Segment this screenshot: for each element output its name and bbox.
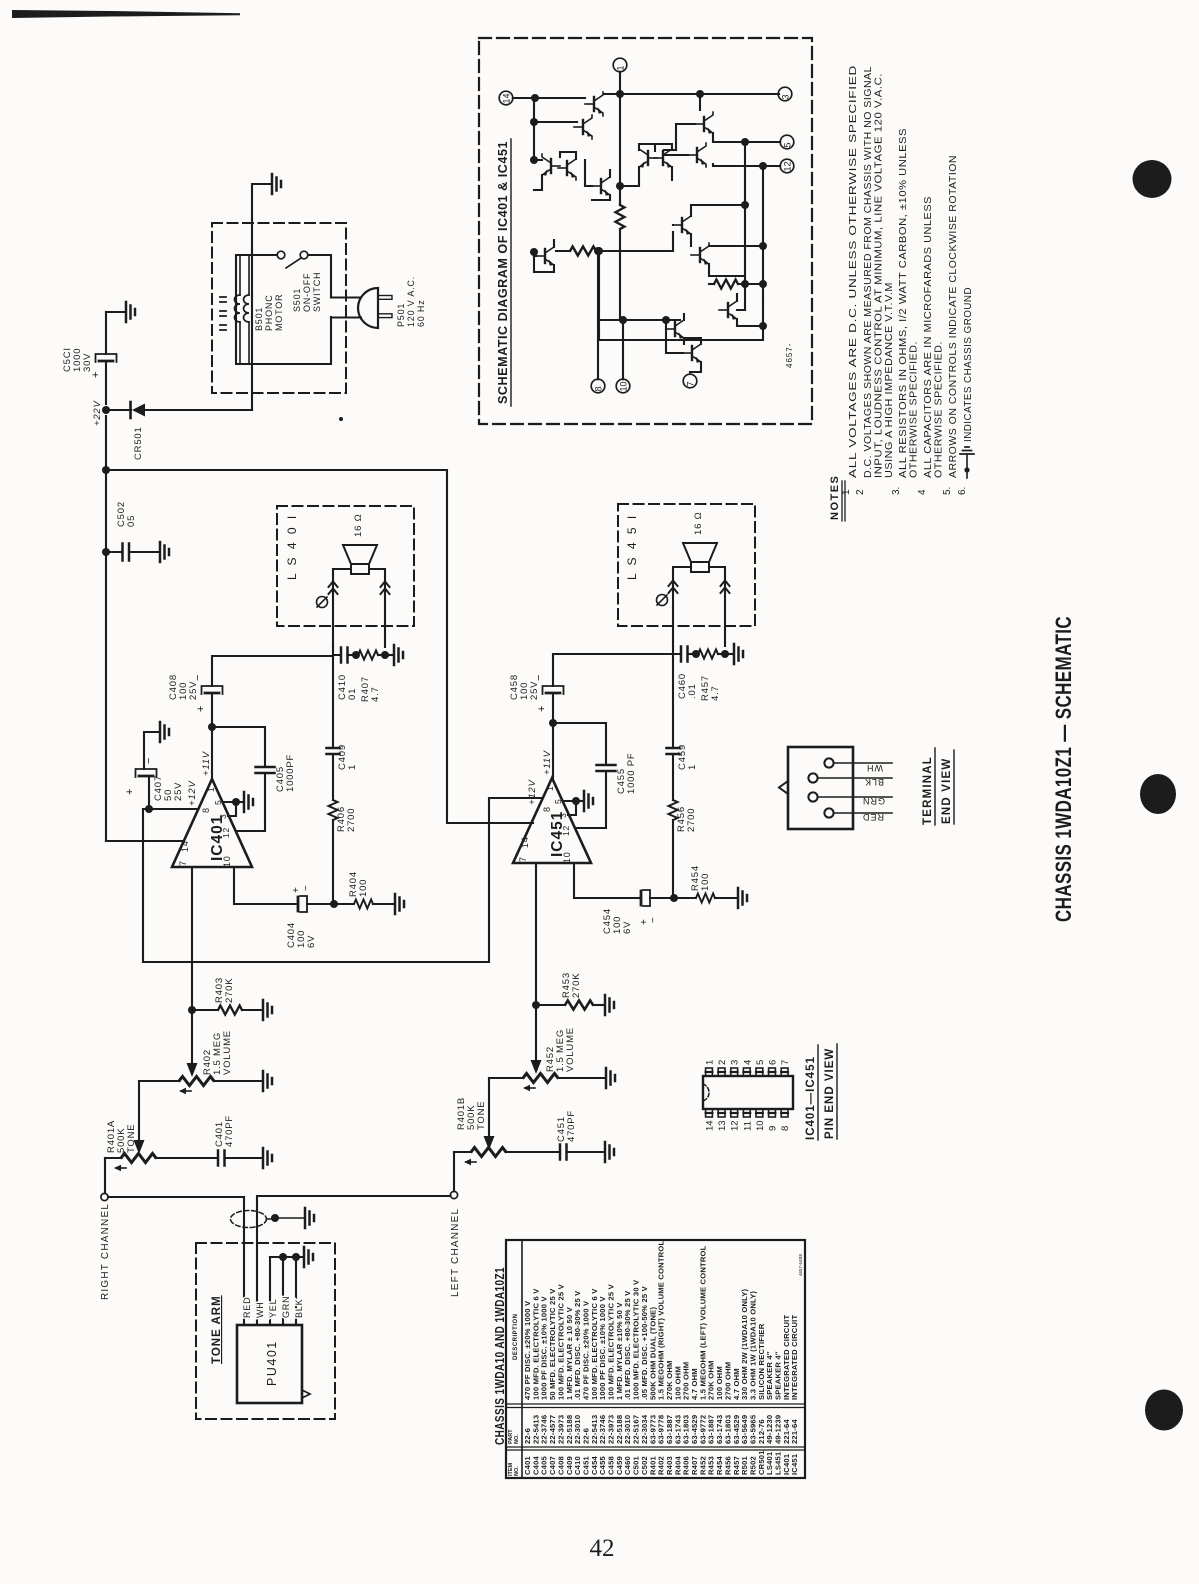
wire C501 top: [105, 312, 107, 354]
svg-text:PIN END VIEW: PIN END VIEW: [824, 1048, 836, 1139]
svg-text:2700: 2700: [686, 808, 697, 832]
wire R456 to node: [672, 820, 674, 898]
svg-text:INPUT, LOUDNESS CONTROL AT MIN: INPUT, LOUDNESS CONTROL AT MINIMUM, LINE…: [874, 73, 885, 478]
svg-text:WH: WH: [255, 1301, 265, 1318]
svg-text:USING A HIGH IMPEDANCE V.T.V.M: USING A HIGH IMPEDANCE V.T.V.M: [884, 282, 895, 478]
svg-text:CR501: CR501: [133, 426, 144, 460]
svg-text:−: −: [143, 758, 155, 764]
svg-text:2700: 2700: [346, 808, 357, 832]
motor loop box: [236, 255, 331, 364]
wire R401A to terminal: [104, 1158, 106, 1193]
svg-text:9: 9: [768, 1126, 779, 1131]
node GRN tie: [279, 1253, 287, 1261]
registration oval right bottom: [1145, 1390, 1183, 1431]
svg-text:6.: 6.: [957, 487, 968, 495]
terminal BLK: [808, 773, 817, 782]
svg-text:YEL: YEL: [268, 1299, 278, 1318]
IC pin 3: [778, 87, 792, 101]
svg-text:120 V A.C.: 120 V A.C.: [406, 276, 416, 327]
svg-text:RED: RED: [862, 812, 884, 822]
svg-text:1: 1: [347, 764, 358, 770]
svg-text:5: 5: [755, 1060, 766, 1065]
svg-text:VOLUME: VOLUME: [222, 1030, 233, 1075]
transistor Q8: [592, 174, 610, 198]
wire right verticals: [745, 142, 763, 310]
svg-text:RIGHT CHANNEL: RIGHT CHANNEL: [100, 1203, 111, 1300]
shield cable: [231, 1211, 267, 1228]
pot arrow R452: [531, 1060, 542, 1074]
resistor R456: [669, 800, 678, 820]
svg-text:+: +: [124, 789, 136, 795]
svg-text:SWITCH: SWITCH: [312, 272, 322, 312]
svg-text:1: 1: [687, 764, 698, 770]
svg-text:ALL VOLTAGES ARE D.C. UNLESS O: ALL VOLTAGES ARE D.C. UNLESS OTHERWISE S…: [848, 65, 859, 478]
svg-text:6V: 6V: [622, 921, 633, 934]
ground at C502: [160, 542, 169, 562]
svg-text:END VIEW: END VIEW: [941, 758, 953, 824]
svg-text:+11V: +11V: [542, 749, 553, 775]
svg-text:S501: S501: [292, 288, 302, 312]
svg-text:WH: WH: [866, 763, 883, 773]
ground at R453: [605, 995, 614, 1015]
parts table frame: [506, 1240, 805, 1478]
wire YEL: [269, 1257, 271, 1325]
transistor Q1: [585, 92, 603, 116]
svg-text:8: 8: [594, 386, 604, 391]
svg-text:14: 14: [705, 1120, 716, 1131]
wire IC401 pin10: [234, 867, 296, 904]
node top rail right: [696, 90, 704, 98]
transistor Q11: [691, 243, 709, 267]
capacitor C455: [553, 723, 606, 764]
phase chevrons LS451 left: [669, 581, 678, 594]
phase chevrons LS401 left: [329, 582, 338, 595]
speaker LS451 wires: [673, 567, 725, 646]
transistor Q4: [688, 143, 706, 167]
svg-text:RED: RED: [242, 1297, 252, 1318]
capacitor C404: [300, 896, 307, 912]
svg-text:4: 4: [917, 489, 928, 495]
svg-text:OTHERWISE SPECIFIED.: OTHERWISE SPECIFIED.: [934, 341, 945, 478]
svg-text:4: 4: [742, 1060, 753, 1065]
wire +12V rail: [143, 808, 198, 810]
cartridge PU401: [237, 1325, 302, 1403]
IC package pins top: [706, 1068, 713, 1076]
terminal GRN: [808, 792, 817, 801]
svg-text:1: 1: [841, 489, 852, 495]
svg-text:13: 13: [717, 1120, 728, 1131]
wire at diode: [106, 409, 252, 411]
svg-text:+11V: +11V: [201, 750, 212, 776]
svg-text:TONE: TONE: [476, 1101, 487, 1130]
wire left channel run: [257, 1195, 451, 1197]
svg-text:270K: 270K: [224, 978, 235, 1003]
shield ground wire: [267, 1218, 273, 1220]
svg-text:+: +: [195, 706, 207, 712]
resistor R453: [536, 1004, 564, 1006]
svg-text:ARROWS ON CONTROLS INDICATE CL: ARROWS ON CONTROLS INDICATE CLOCKWISE RO…: [948, 155, 959, 478]
node bus-552: [102, 548, 110, 556]
wire pin10 vertical: [598, 320, 623, 379]
capacitor C501: [96, 354, 117, 362]
ground at R402: [263, 1071, 272, 1091]
node C454-R454: [670, 894, 678, 902]
IC internal dashed box: [479, 38, 812, 424]
resistor internal R1: [619, 200, 621, 205]
wire Q9 links: [534, 252, 536, 256]
svg-text:LEFT CHANNEL: LEFT CHANNEL: [450, 1208, 461, 1297]
svg-text:30V: 30V: [82, 353, 93, 372]
svg-text:270K: 270K: [571, 973, 582, 998]
svg-text:2: 2: [855, 489, 866, 495]
IC package pins bottom: [706, 1109, 713, 1117]
terminal board: [788, 747, 853, 829]
svg-text:.01: .01: [687, 683, 698, 699]
svg-text:INTEGRATED CIRCUIT: INTEGRATED CIRCUIT: [790, 1315, 799, 1400]
svg-text:8: 8: [542, 806, 552, 812]
svg-text:01: 01: [347, 688, 358, 700]
resistor internal R2: [556, 250, 570, 252]
ground IC401 pin5: [244, 792, 253, 812]
svg-text:16 Ω: 16 Ω: [693, 511, 704, 535]
transistor Q12: [719, 298, 737, 322]
ground at R454: [738, 888, 747, 908]
svg-text:MOTOR: MOTOR: [274, 294, 284, 331]
node R407-gnd: [381, 651, 389, 659]
wire +11V node to apex: [211, 727, 213, 779]
svg-text:12: 12: [730, 1120, 741, 1131]
svg-text:10: 10: [619, 381, 629, 391]
wire Q3 links: [676, 94, 780, 150]
wire bottom rail: [623, 319, 680, 321]
terminal RED: [824, 808, 833, 817]
wiper R401B: [466, 1161, 476, 1163]
svg-text:12: 12: [783, 161, 793, 171]
svg-text:P501: P501: [396, 303, 406, 327]
motor core dashes: [220, 297, 226, 330]
wire IC401 pin5-3 ground tie: [224, 802, 236, 816]
svg-text:10: 10: [755, 1120, 766, 1131]
capacitor C409: [327, 748, 340, 754]
svg-text:60 Hz: 60 Hz: [416, 299, 426, 327]
capacitor C460: [673, 646, 680, 654]
wire pin1 vertical: [619, 72, 621, 205]
node bus-470: [102, 466, 110, 474]
wire Q13 links: [666, 314, 684, 344]
potentiometer R401A: [105, 1157, 121, 1159]
svg-text:5: 5: [553, 798, 563, 804]
svg-text:3: 3: [781, 94, 791, 99]
wire Q12 links: [737, 294, 763, 326]
wire Q2 link: [534, 98, 577, 160]
capacitor C401: [218, 1151, 225, 1166]
TONE ARM dashed box: [196, 1243, 335, 1419]
svg-text:3: 3: [558, 812, 568, 818]
svg-text:BLK: BLK: [294, 1299, 304, 1318]
phase chevrons LS401 right: [381, 582, 390, 595]
LS401 dashed box: [277, 506, 414, 626]
IC pin 1: [613, 58, 627, 72]
node C460-R457: [692, 650, 700, 658]
IC pin 7: [683, 374, 697, 388]
svg-text:4.7: 4.7: [710, 685, 721, 701]
wire WH: [256, 1197, 258, 1325]
svg-text:SCHEMATIC DIAGRAM OF IC401 & I: SCHEMATIC DIAGRAM OF IC401 & IC451: [496, 141, 510, 404]
wire BLK: [295, 1257, 297, 1325]
wire RED: [243, 1197, 245, 1325]
svg-text:7: 7: [178, 860, 188, 866]
svg-text:4.7: 4.7: [370, 686, 381, 702]
svg-text:−: −: [301, 885, 312, 891]
svg-text:1000 PF: 1000 PF: [626, 752, 637, 794]
node +11V IC451: [549, 719, 557, 727]
svg-text:6: 6: [768, 1060, 779, 1065]
svg-text:+: +: [536, 706, 548, 712]
svg-text:7: 7: [780, 1060, 791, 1065]
svg-text:BLK: BLK: [864, 777, 884, 787]
transistor Q5: [542, 154, 560, 178]
wire output node chain right: [672, 654, 674, 746]
wire motor riser: [252, 184, 271, 410]
resistor R454: [674, 897, 695, 899]
potentiometer R452: [489, 1077, 523, 1079]
wire R401B to terminal: [453, 1152, 455, 1191]
capacitor C405: [212, 727, 265, 766]
wiper R452: [525, 1087, 535, 1089]
terminal WH: [824, 758, 833, 767]
svg-text:5: 5: [783, 142, 793, 147]
transistor Q6: [558, 156, 576, 180]
svg-text:NO.: NO.: [514, 1466, 520, 1476]
wire IC401 pin14: [106, 840, 184, 842]
svg-text:2: 2: [717, 1060, 728, 1065]
speck: [339, 417, 343, 421]
svg-text:5.: 5.: [942, 487, 953, 495]
wire pin14 rail: [513, 97, 585, 99]
svg-text:8: 8: [780, 1126, 791, 1131]
wire Q14 links: [666, 329, 701, 372]
ground at C401: [263, 1148, 272, 1168]
transistor Q3: [695, 112, 713, 136]
wire +12V riser to right: [143, 798, 543, 962]
ground at C501: [126, 302, 135, 322]
svg-text:25V: 25V: [188, 681, 199, 700]
svg-text:7: 7: [686, 381, 696, 386]
svg-text:10: 10: [562, 851, 572, 863]
ground at C407: [160, 722, 169, 742]
ground at motor top: [272, 174, 281, 194]
svg-text:4657-: 4657-: [785, 343, 794, 368]
transistor Q9 left bottom: [536, 244, 554, 268]
svg-text:25V: 25V: [529, 681, 540, 700]
wire output node chain: [332, 655, 334, 746]
IC pin 14: [499, 91, 513, 105]
capacitor C451: [560, 1145, 567, 1160]
transistor Q13: [666, 317, 684, 341]
node right v1: [741, 201, 749, 209]
svg-text:1: 1: [705, 1060, 716, 1065]
wire Q12 emitter to rail: [599, 298, 763, 340]
wire IC451 pin7: [535, 863, 537, 1061]
note 6 ground glyph: [966, 455, 968, 478]
wire pin8 vertical: [597, 251, 599, 379]
wire R406 to node: [332, 820, 334, 904]
resistor R403: [192, 1009, 217, 1011]
ground IC451 pin5: [584, 791, 593, 811]
svg-text:5: 5: [213, 799, 223, 805]
node pin14 rail: [531, 94, 539, 102]
svg-text:DESCRIPTION: DESCRIPTION: [513, 1313, 519, 1360]
wire pin5 row: [664, 155, 780, 166]
wiper R402: [181, 1090, 191, 1092]
svg-text:25V: 25V: [173, 782, 184, 801]
svg-text:NOTES: NOTES: [829, 475, 841, 520]
svg-text:+12V: +12V: [187, 779, 198, 806]
ground at R404: [395, 894, 404, 914]
bus wire to right channel: [106, 470, 533, 823]
svg-text:ALL RESISTORS IN OHMS, I/2 WAT: ALL RESISTORS IN OHMS, I/2 WATT CARBON, …: [898, 128, 909, 478]
node pin1 top rail: [616, 90, 624, 98]
svg-text:11: 11: [742, 1121, 753, 1131]
wire Q8 links: [585, 160, 610, 200]
svg-text:1: 1: [545, 785, 555, 791]
wire top rail: [604, 93, 779, 95]
svg-text:TERMINAL: TERMINAL: [922, 756, 934, 825]
plug P501 wires: [331, 298, 361, 318]
node R457-gnd: [721, 650, 729, 658]
node pin5 row: [741, 138, 749, 146]
svg-text:4657-64B8: 4657-64B8: [798, 1253, 803, 1276]
svg-text:−: −: [192, 675, 204, 681]
svg-text:GRN: GRN: [281, 1296, 291, 1318]
wire Q5 Q6 links: [534, 152, 576, 190]
svg-text:470PF: 470PF: [566, 1110, 577, 1142]
B501 dashed box: [212, 223, 346, 393]
svg-text:14: 14: [180, 840, 190, 852]
svg-text:INDICATES CHASSIS GROUND: INDICATES CHASSIS GROUND: [963, 287, 974, 442]
potentiometer R401B: [454, 1151, 471, 1153]
svg-text:6V: 6V: [306, 935, 317, 948]
node R453: [532, 1001, 540, 1009]
left bus wire: [106, 416, 184, 841]
wire IC451 pin10: [574, 863, 639, 898]
pot arrow R401B: [484, 1136, 495, 1150]
capacitor C454: [643, 890, 650, 906]
transistor Q14: [683, 341, 701, 365]
wire +11V node to apex IC451: [552, 723, 554, 778]
svg-text:+12V: +12V: [527, 778, 538, 805]
wire IC401 pin7: [191, 867, 193, 1063]
svg-text:+: +: [90, 372, 102, 378]
resistor R406: [329, 800, 338, 820]
svg-text:D.C. VOLTAGES SHOWN ARE MEASUR: D.C. VOLTAGES SHOWN ARE MEASURED FROM CH…: [863, 66, 874, 478]
wire R402 to R401A: [138, 1081, 140, 1140]
terminal left channel: [450, 1191, 457, 1198]
node +11V IC401: [208, 723, 216, 731]
top-left registration bar: [12, 10, 240, 18]
node R403: [188, 1006, 196, 1014]
svg-text:12: 12: [221, 827, 231, 838]
phase mark LS401: [317, 597, 328, 608]
svg-text:IC451: IC451: [790, 1453, 799, 1475]
svg-text:VOLUME: VOLUME: [565, 1027, 576, 1072]
capacitor C407: [148, 778, 150, 809]
op-amp IC401 triangle: [172, 779, 252, 867]
capacitor C459: [667, 748, 680, 754]
node C404-R404: [330, 900, 338, 908]
diode CR501: [132, 404, 145, 417]
plug P501: [358, 288, 378, 328]
svg-text:1000PF: 1000PF: [285, 754, 296, 792]
svg-text:221-64: 221-64: [790, 1419, 799, 1444]
IC pin 8: [591, 379, 605, 393]
svg-text:1: 1: [206, 786, 216, 792]
ground at R452: [606, 1068, 615, 1088]
wire Q11 links: [709, 246, 763, 276]
capacitor C502: [106, 551, 122, 553]
svg-text:470PF: 470PF: [224, 1115, 235, 1147]
wire terminal to tone arm: [108, 1196, 244, 1198]
ground at R407: [385, 654, 393, 656]
svg-text:PHONC: PHONC: [264, 294, 274, 331]
pot arrow R401A: [134, 1140, 145, 1154]
capacitor C458: [552, 695, 554, 723]
resistor R404: [334, 903, 353, 905]
resistor internal R3: [709, 283, 714, 285]
svg-text:14: 14: [520, 836, 530, 848]
wire R2 branches: [599, 232, 673, 340]
svg-text:14: 14: [502, 93, 512, 103]
registration oval right middle: [1140, 774, 1176, 814]
wire GRN: [282, 1257, 284, 1325]
svg-text:GRN: GRN: [862, 796, 885, 806]
svg-text:3: 3: [218, 813, 228, 819]
svg-text:OTHERWISE SPECIFIED.: OTHERWISE SPECIFIED.: [909, 341, 920, 478]
svg-text:16 Ω: 16 Ω: [353, 513, 364, 537]
op-amp IC451 triangle: [513, 778, 591, 863]
svg-text:8: 8: [201, 807, 211, 813]
ground at C451: [605, 1142, 614, 1162]
potentiometer R402: [139, 1080, 179, 1082]
svg-text:PU401: PU401: [265, 1340, 279, 1386]
svg-text:CHASSIS 1WDA10Z1 — SCHEMATIC: CHASSIS 1WDA10Z1 — SCHEMATIC: [1051, 616, 1076, 922]
node C407 junction: [145, 805, 153, 813]
speaker LS401 wires: [333, 569, 385, 647]
capacitor C408: [211, 695, 213, 727]
node +22V: [102, 406, 110, 414]
svg-text:7: 7: [518, 856, 528, 862]
ground shield: [305, 1208, 314, 1228]
terminal right channel: [101, 1193, 108, 1200]
motor B501 windings: [235, 295, 241, 322]
transistor Q2: [574, 115, 592, 139]
LS451 dashed box: [618, 504, 755, 626]
switch S501: [277, 251, 285, 259]
wiper R401A: [116, 1167, 126, 1169]
IC package body: [703, 1076, 793, 1109]
svg-text:ALL CAPACITORS ARE IN MICROFAR: ALL CAPACITORS ARE IN MICROFARADS UNLESS: [923, 196, 934, 478]
PU401 stylus arrow: [302, 1390, 310, 1398]
svg-text:B501: B501: [254, 307, 264, 331]
speaker LS451: [683, 543, 717, 562]
node C410-R407: [352, 651, 360, 659]
svg-text:05: 05: [126, 515, 137, 527]
svg-text:IC401—IC451: IC401—IC451: [805, 1056, 817, 1140]
svg-text:TONE: TONE: [126, 1124, 137, 1153]
capacitor C410: [333, 647, 340, 655]
shield tie wire: [270, 1256, 303, 1258]
IC pin 10: [616, 379, 630, 393]
